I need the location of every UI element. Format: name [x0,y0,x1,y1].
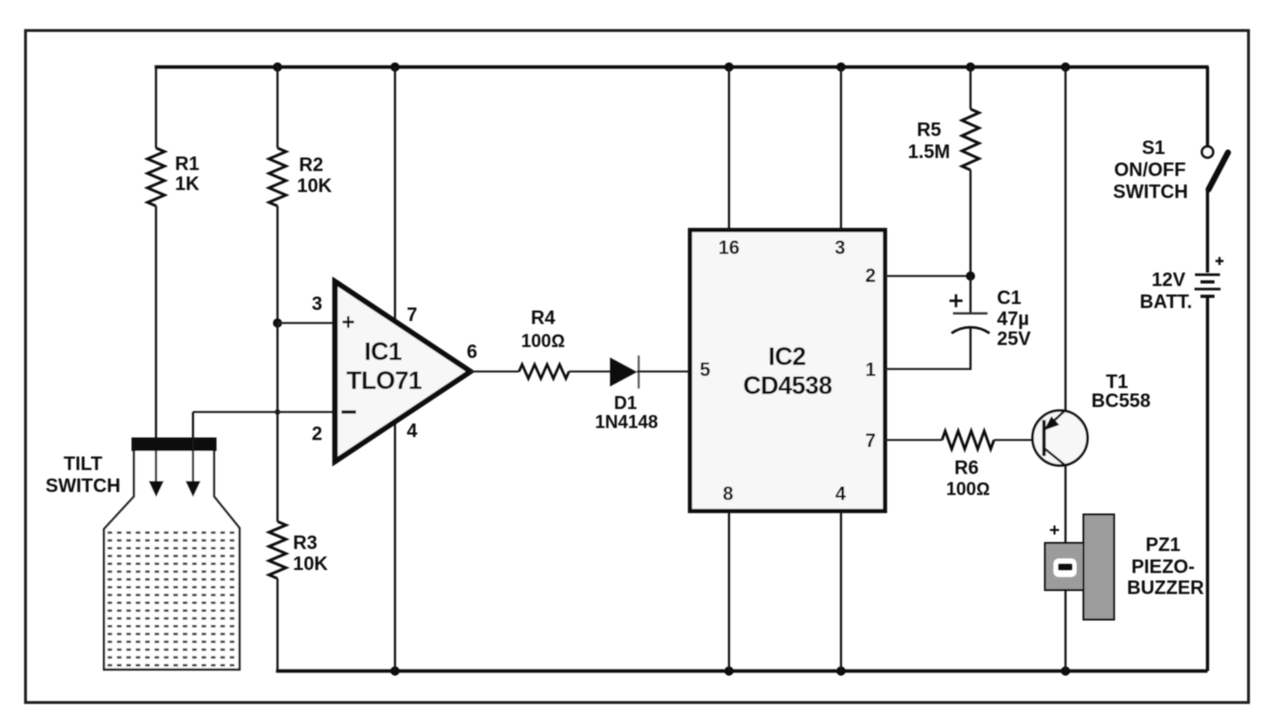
wire S1 column from top rail [1206,67,1209,146]
svg-text:10K: 10K [297,176,332,197]
svg-text:3: 3 [312,294,323,315]
junction top rail / op-amp supply column [390,62,399,71]
transistor T1 base bar [1042,420,1045,456]
diode D1 anode triangle [610,358,637,387]
wire R2 top lead from rail [276,65,278,148]
buzzer PZ1 white button [1054,559,1077,578]
junction top rail / R5 column [966,62,975,71]
junction node R5 / C1 / IC2 pin 2 [966,271,975,280]
capacitor C1 positive plate [953,312,988,314]
svg-text:R6: R6 [954,458,978,479]
wire switch to battery [1206,189,1209,273]
svg-text:2: 2 [312,424,323,445]
wire divider column from pin3 node down to R3 [276,323,278,522]
wire R1 top lead from rail [155,65,157,148]
wire IC2 pin 7 to R6 [885,439,942,441]
svg-text:PZ1: PZ1 [1146,535,1181,556]
svg-text:R3: R3 [293,533,317,554]
tilt switch cap [132,438,217,452]
transistor T1 emitter arrow (PNP) [1046,418,1059,430]
switch S1 contact circle [1202,146,1213,157]
svg-text:10K: 10K [293,554,328,575]
wire IC2 pin 16 to top rail [728,67,730,230]
resistor R4 [519,365,569,379]
buzzer PZ1 small gray block [1045,543,1084,590]
battery short plate 2 [1201,295,1215,298]
junction top rail / IC2 pin 16 column [724,62,733,71]
tilt switch electrolyte dot grid [106,529,239,668]
svg-text:R1: R1 [175,154,200,175]
wire T1 emitter column from top rail [1064,67,1066,410]
svg-text:C1: C1 [997,288,1022,309]
svg-text:6: 6 [467,342,478,363]
wire D1 cathode to IC2 pin 5 [637,371,690,373]
svg-text:ON/OFF: ON/OFF [1114,160,1186,181]
wire R4 to D1 anode [569,371,610,373]
svg-text:IC2: IC2 [768,343,805,371]
svg-text:TLO71: TLO71 [346,367,422,395]
resistor R2 [269,148,286,206]
wire R5 bottom lead to node [969,170,971,276]
wire IC2 pin 8 to ground rail [728,511,730,671]
buzzer PZ1 tall gray block [1084,515,1115,620]
tilt switch bottle outline [104,451,240,670]
svg-text:TILT: TILT [64,454,103,475]
IC2 CD4538 box [690,230,885,511]
switch S1 lever [1209,153,1229,190]
svg-text:7: 7 [407,305,418,326]
tilt switch left electrode arrowhead [149,481,164,497]
tilt switch right electrode arrowhead [186,481,201,497]
wire IC2 pin 3 to top rail [840,67,842,230]
resistor R5 [962,109,979,170]
svg-text:S1: S1 [1142,138,1166,159]
svg-text:2: 2 [865,266,876,287]
svg-text:100Ω: 100Ω [521,331,565,351]
capacitor C1 plus marker [950,294,963,307]
junction node op-amp pin 3 / R2-R3 divider [273,318,282,327]
svg-text:4: 4 [835,484,846,505]
svg-text:47µ: 47µ [997,309,1029,330]
svg-text:IC1: IC1 [364,338,402,366]
wire R6 to T1 base [994,439,1044,441]
junction top rail / IC2 pin 3 column [836,62,845,71]
svg-text:1K: 1K [175,174,200,195]
junction bottom rail / PZ1 column [1061,666,1070,675]
svg-text:100Ω: 100Ω [946,479,990,499]
svg-text:BATT.: BATT. [1140,292,1192,313]
junction bottom rail / IC2 pin 4 column [836,666,845,675]
transistor T1 collector line [1044,448,1066,466]
wire op-amp supply column pins 7-4 (top rail to bottom rail, hidden behind triangle) [394,67,396,671]
op-amp IC1 TLO71 triangle [335,282,471,462]
svg-text:PIEZO-: PIEZO- [1131,557,1194,578]
svg-text:1N4148: 1N4148 [595,412,658,432]
svg-text:T1: T1 [1106,372,1129,393]
svg-text:BUZZER: BUZZER [1127,578,1204,599]
wire IC2 pin 4 to ground rail [840,511,842,671]
wire IC2 pin 2 to R5/C1 node [885,275,971,277]
junction bottom rail / IC2 pin 8 column [724,666,733,675]
wire op-amp output pin 6 to R4 [471,371,520,373]
svg-text:7: 7 [865,431,876,452]
svg-text:3: 3 [835,238,846,259]
wire tilt switch right electrode from pin 2 wire [192,412,194,451]
junction top rail / T1 collector column [1061,62,1070,71]
junction top rail / R2 column [273,62,282,71]
wire op-amp pin 2 input from tilt switch electrode [193,411,336,413]
battery 12V long plate 1 [1195,273,1220,276]
svg-text:5: 5 [700,360,711,381]
capacitor C1 negative curved plate [952,327,990,333]
resistor R3 [269,522,286,579]
wire op-amp pin 3 input from divider node [278,322,337,324]
svg-text:R4: R4 [531,308,556,329]
wire R2 bottom lead down to node at op-amp pin 3 [276,206,278,323]
wire R3 bottom lead to ground rail [276,579,278,672]
svg-text:CD4538: CD4538 [743,372,832,400]
tilt switch left electrode shaft [155,451,157,482]
resistor R6 [942,431,994,449]
svg-text:R5: R5 [917,120,942,141]
transistor T1 emitter line [1044,410,1066,431]
label - inverting input marker [342,410,357,413]
wire C1 bottom lead to IC2 pin 1 wire [969,328,971,370]
wire bottom ground rail [276,669,1208,672]
junction bottom rail / op-amp supply column [390,666,399,675]
battery long plate 2 [1195,288,1221,291]
svg-text:1: 1 [865,360,876,381]
svg-text:SWITCH: SWITCH [1113,182,1188,203]
resistor R1 [148,148,165,206]
wire IC2 pin 1 to C1 bottom [885,368,971,370]
wire top supply rail [155,65,1209,68]
buzzer PZ1 plus marker [1050,526,1059,535]
svg-text:1.5M: 1.5M [908,142,950,163]
svg-text:8: 8 [723,484,734,505]
buzzer PZ1 black bar [1058,564,1073,571]
svg-text:R2: R2 [299,155,323,176]
svg-text:4: 4 [407,421,418,442]
svg-text:BC558: BC558 [1091,391,1150,412]
wire battery negative to ground rail [1206,297,1209,671]
transistor T1 BC558 circle [1033,411,1088,466]
svg-text:12V: 12V [1152,270,1186,291]
diode D1 cathode bar [638,356,640,389]
junction small dot where pin 2 wire crosses divider column [275,409,280,414]
wire R5 top lead from rail [969,65,971,109]
wire T1 collector column down to ground rail (passes behind PZ1) [1064,466,1066,671]
svg-text:25V: 25V [997,329,1031,350]
wire R1 bottom lead down to tilt switch left electrode [155,206,157,438]
svg-text:SWITCH: SWITCH [46,476,121,497]
label + noninverting input marker [343,316,355,328]
battery plus marker [1216,257,1224,265]
battery short plate 1 [1201,280,1215,283]
svg-text:D1: D1 [614,393,637,413]
svg-text:16: 16 [718,238,739,259]
tilt switch right electrode shaft [192,451,194,482]
wire node to C1 positive plate [969,276,971,313]
